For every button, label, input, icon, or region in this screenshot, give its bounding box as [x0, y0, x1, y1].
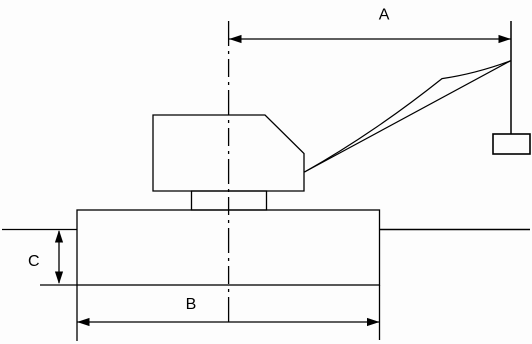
boom upper chord [305, 61, 511, 172]
arrowhead B right [367, 318, 380, 326]
dimension line C (double arrow) [58, 231, 60, 283]
turntable pedestal [192, 191, 267, 210]
ground line left [2, 229, 77, 231]
svg-text:A: A [379, 7, 390, 24]
svg-text:C: C [28, 253, 40, 270]
B extension line right [379, 285, 381, 340]
centerline axis (dash-dot) [228, 21, 230, 322]
boom lower chord [305, 61, 511, 172]
arrowhead A left [229, 35, 242, 43]
crane chassis (carbody) rectangle [77, 210, 380, 285]
arrowhead C top [55, 230, 63, 243]
dimension line B [77, 321, 380, 323]
hoist rope and right extension line [510, 21, 512, 134]
arrowhead A right [499, 35, 512, 43]
arrowhead C bottom [55, 272, 63, 285]
chassis bottom edge extension (C datum) [40, 284, 77, 286]
svg-text:B: B [186, 296, 197, 313]
dimension line A [229, 38, 511, 40]
B extension line left [76, 285, 78, 341]
operator cab body [153, 115, 304, 191]
load block [493, 134, 530, 154]
arrowhead B left [77, 318, 90, 326]
ground line right [380, 229, 531, 231]
